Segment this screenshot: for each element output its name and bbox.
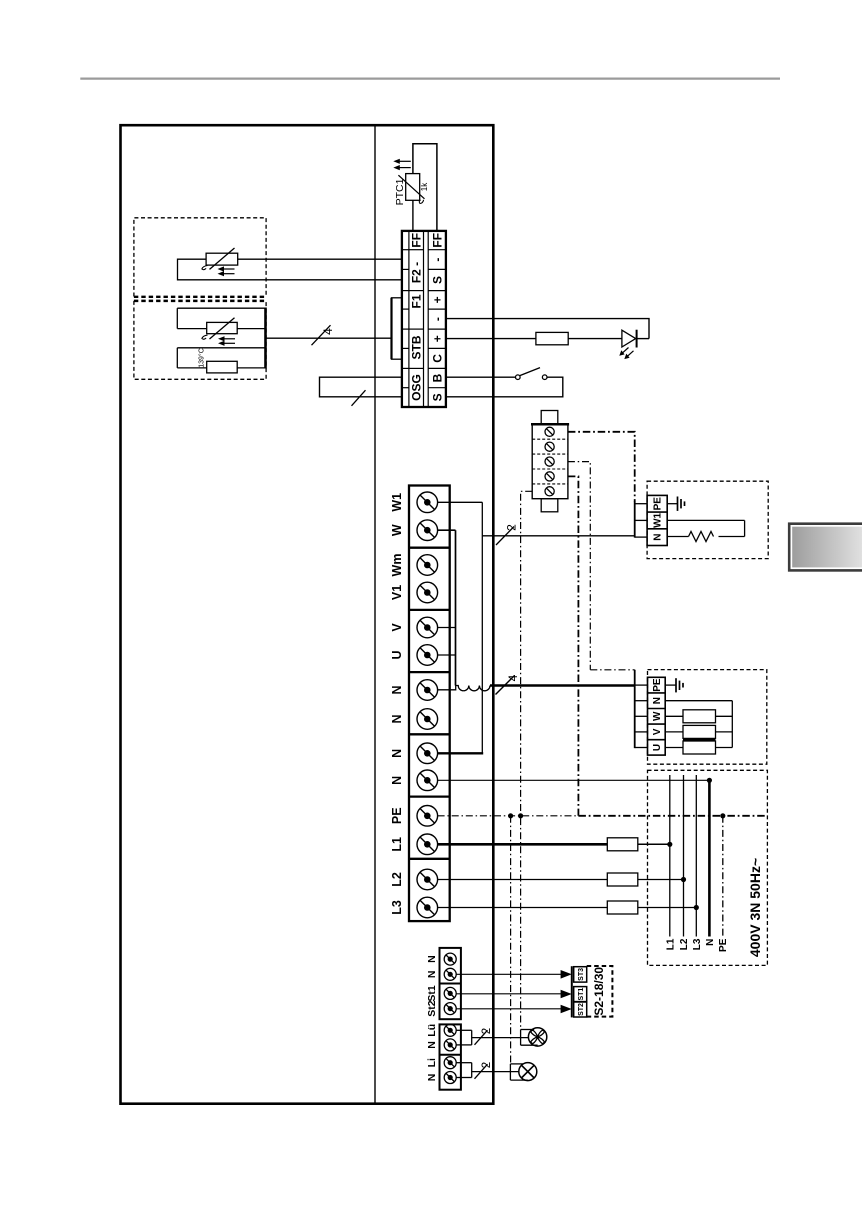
aux block screws — [545, 427, 554, 436]
wire W — [438, 529, 456, 531]
wire /4 to heater 2 — [490, 684, 635, 687]
svg-text:4: 4 — [321, 328, 335, 335]
resistor R1 — [536, 332, 568, 344]
node PE taps — [508, 813, 513, 818]
limiter element 139C — [207, 361, 238, 373]
wire N1 — [438, 686, 456, 690]
OSG cable U-link — [320, 377, 402, 397]
wire S row — [446, 377, 563, 397]
svg-text:C: C — [430, 354, 444, 363]
svg-text:+: + — [430, 296, 444, 303]
wire /2 to heater 1 — [482, 535, 634, 537]
supply line N — [708, 780, 711, 936]
svg-text:FF: FF — [430, 233, 444, 248]
wire W1 to cable /2 and N — [438, 501, 483, 503]
svg-text:N: N — [426, 955, 438, 963]
svg-text:N: N — [426, 1041, 438, 1049]
LED D1 — [622, 330, 636, 347]
svg-text:1k: 1k — [420, 182, 429, 191]
svg-text:F1: F1 — [410, 294, 424, 308]
switch S1 — [516, 375, 521, 380]
thermistor 1 arrows — [221, 268, 234, 270]
bottom strip A — [440, 948, 461, 1019]
svg-text:2: 2 — [505, 524, 519, 531]
heater 2 elements — [665, 715, 683, 717]
svg-text:2: 2 — [481, 1062, 493, 1068]
dashed box sensor 2 — [134, 301, 266, 379]
fan cable gather — [456, 1029, 472, 1031]
bottom strip B — [440, 1024, 461, 1089]
svg-text:2: 2 — [481, 1028, 493, 1034]
aux wire 1 (dash-dot to heater plug 1) — [568, 432, 635, 502]
svg-text:-: - — [430, 317, 444, 321]
enclosure outline — [121, 125, 494, 1103]
svg-text:W: W — [652, 711, 663, 721]
heater 2 thick bar — [683, 739, 716, 741]
svg-text:400V 3N 50Hz~: 400V 3N 50Hz~ — [747, 858, 763, 957]
svg-text:PE: PE — [652, 678, 663, 692]
svg-text:4: 4 — [506, 674, 520, 681]
node supply N — [707, 778, 712, 783]
heater 2 terminals — [648, 677, 666, 755]
heater 2 plug bus — [634, 670, 636, 748]
svg-text:F2 -: F2 - — [410, 262, 424, 283]
wire /2 to lamp — [472, 1071, 519, 1073]
wire PE dash-dot — [438, 815, 579, 817]
svg-text:N: N — [653, 533, 664, 540]
svg-text:N: N — [390, 685, 404, 694]
svg-text:W1: W1 — [390, 493, 404, 512]
svg-text:V: V — [390, 623, 404, 632]
svg-text:139°C: 139°C — [197, 348, 205, 368]
supply dashed box — [648, 770, 768, 965]
PTC1 arrows — [397, 160, 411, 162]
ST1 box — [574, 987, 587, 1002]
svg-text:St1: St1 — [426, 985, 438, 1002]
top horizontal rule — [80, 77, 780, 79]
svg-text:L1: L1 — [390, 837, 404, 852]
heater 2 dashed box — [648, 670, 767, 765]
wire L1 with fuse — [438, 843, 608, 846]
wire plus row — [446, 338, 536, 340]
wire B row — [446, 376, 516, 378]
svg-text:L1: L1 — [665, 938, 676, 950]
wire sensor1 lead A — [238, 258, 402, 260]
svg-text:PTC1: PTC1 — [394, 178, 406, 205]
ST2 box — [574, 1002, 587, 1017]
svg-text:STB: STB — [410, 335, 424, 359]
wire L3 with fuse — [438, 907, 608, 909]
fan terminal bracket — [520, 1030, 522, 1046]
lamp terminal bracket — [509, 1064, 511, 1080]
sensor 2 bundle bar — [264, 308, 267, 369]
dash-dot PE to lamp — [510, 816, 512, 1064]
svg-text:B: B — [430, 373, 444, 382]
cable gather scallops — [456, 686, 491, 691]
svg-text:+: + — [430, 335, 444, 342]
wire /2 to fan — [472, 1037, 529, 1039]
svg-text:U: U — [652, 744, 663, 751]
heater 2 N bus — [665, 700, 732, 702]
svg-text:S2-18/30: S2-18/30 — [592, 967, 606, 1016]
svg-text:OSG: OSG — [410, 374, 424, 401]
thermistor 2 arrows — [222, 338, 235, 340]
main terminal strip body — [409, 486, 450, 922]
LED emission arrows — [622, 348, 634, 358]
svg-text:PE: PE — [390, 807, 404, 824]
svg-text:St2: St2 — [426, 1000, 438, 1017]
thermistor sensor 2 — [207, 322, 238, 333]
PTC1 thermistor — [406, 174, 420, 201]
svg-text:L2: L2 — [679, 938, 690, 950]
svg-text:ST2: ST2 — [578, 1003, 585, 1016]
svg-text:S: S — [430, 276, 444, 284]
aux block top tab — [541, 411, 558, 425]
lamp E1 — [519, 1063, 537, 1081]
wire sensor1 lead B — [178, 259, 402, 280]
svg-text:Lü: Lü — [426, 1024, 438, 1037]
lamp cable gather — [456, 1062, 472, 1064]
fuse F L3 — [607, 901, 638, 914]
svg-text:U: U — [390, 650, 404, 659]
svg-text:ST1: ST1 — [578, 988, 585, 1001]
supply line L1 — [669, 775, 671, 937]
controller terminal block — [402, 231, 446, 407]
wire bundle /4 to STB plug — [266, 337, 392, 339]
heater 1 ground — [667, 503, 677, 505]
heater 1 dashed box — [647, 481, 768, 558]
wire L2 with fuse — [438, 879, 608, 881]
svg-text:N: N — [705, 939, 716, 946]
fan blades — [531, 1030, 545, 1044]
svg-text:FF: FF — [410, 233, 424, 248]
wire minus row — [446, 319, 649, 339]
aux wire 5 (dash-dot to fan PE) — [521, 491, 533, 1029]
svg-text:S: S — [430, 393, 444, 401]
svg-text:L3: L3 — [390, 900, 404, 915]
heater 2 ground — [665, 684, 676, 686]
svg-text:PE: PE — [718, 938, 729, 952]
wire U — [438, 654, 456, 656]
svg-text:N: N — [390, 714, 404, 723]
room stat dashed outline — [587, 966, 613, 1017]
aux block bottom tab — [541, 499, 558, 512]
svg-text:N: N — [390, 776, 404, 785]
room stat connector bar — [571, 966, 573, 1017]
svg-text:L2: L2 — [390, 872, 404, 887]
wire to LED — [568, 338, 622, 340]
supply line PE — [722, 816, 724, 937]
wire N4 to supply N — [438, 779, 710, 781]
heater 1 plug bus — [634, 501, 636, 538]
svg-text:N: N — [426, 971, 438, 979]
aux block body — [532, 424, 568, 498]
enclosure inner divider — [374, 125, 376, 1103]
svg-text:N: N — [390, 749, 404, 758]
svg-text:W1: W1 — [653, 512, 664, 527]
svg-text:W: W — [390, 524, 404, 536]
fuse F L1 — [607, 838, 638, 851]
svg-text:L3: L3 — [692, 938, 703, 950]
wire N3 link — [438, 752, 484, 754]
ST3 box — [574, 967, 587, 982]
fuse F L2 — [607, 873, 638, 886]
svg-text:Li: Li — [426, 1058, 438, 1067]
fan M1 — [528, 1028, 546, 1046]
supply line L2 — [683, 775, 685, 937]
wires to room stat — [456, 973, 561, 975]
heater 1 element — [667, 519, 744, 521]
svg-text:Wm: Wm — [390, 554, 404, 577]
main strip screws — [417, 492, 438, 513]
svg-text:N: N — [426, 1074, 438, 1082]
svg-text:-: - — [430, 258, 444, 262]
F1/STB plug bracket — [392, 298, 403, 359]
wire V — [438, 627, 456, 629]
sensor 2 wiring — [177, 307, 265, 309]
svg-text:V1: V1 — [390, 585, 404, 600]
thermistor sensor 1 — [206, 253, 238, 265]
svg-text:ST3: ST3 — [578, 968, 585, 981]
aux wire 3 (dash-dot to heater plug 2) — [568, 462, 590, 670]
svg-text:V: V — [652, 728, 663, 735]
svg-text:N: N — [652, 697, 663, 704]
PTC1 wires to FF — [413, 144, 437, 231]
dashed box sensor 1 — [134, 218, 266, 297]
aux wire 4 (dash-dot to PE rail) — [568, 476, 579, 815]
supply line L3 — [695, 775, 697, 937]
heater 1 terminals — [647, 495, 667, 545]
svg-text:PE: PE — [653, 497, 664, 511]
dash-dot into heater 2 plug — [590, 669, 634, 671]
